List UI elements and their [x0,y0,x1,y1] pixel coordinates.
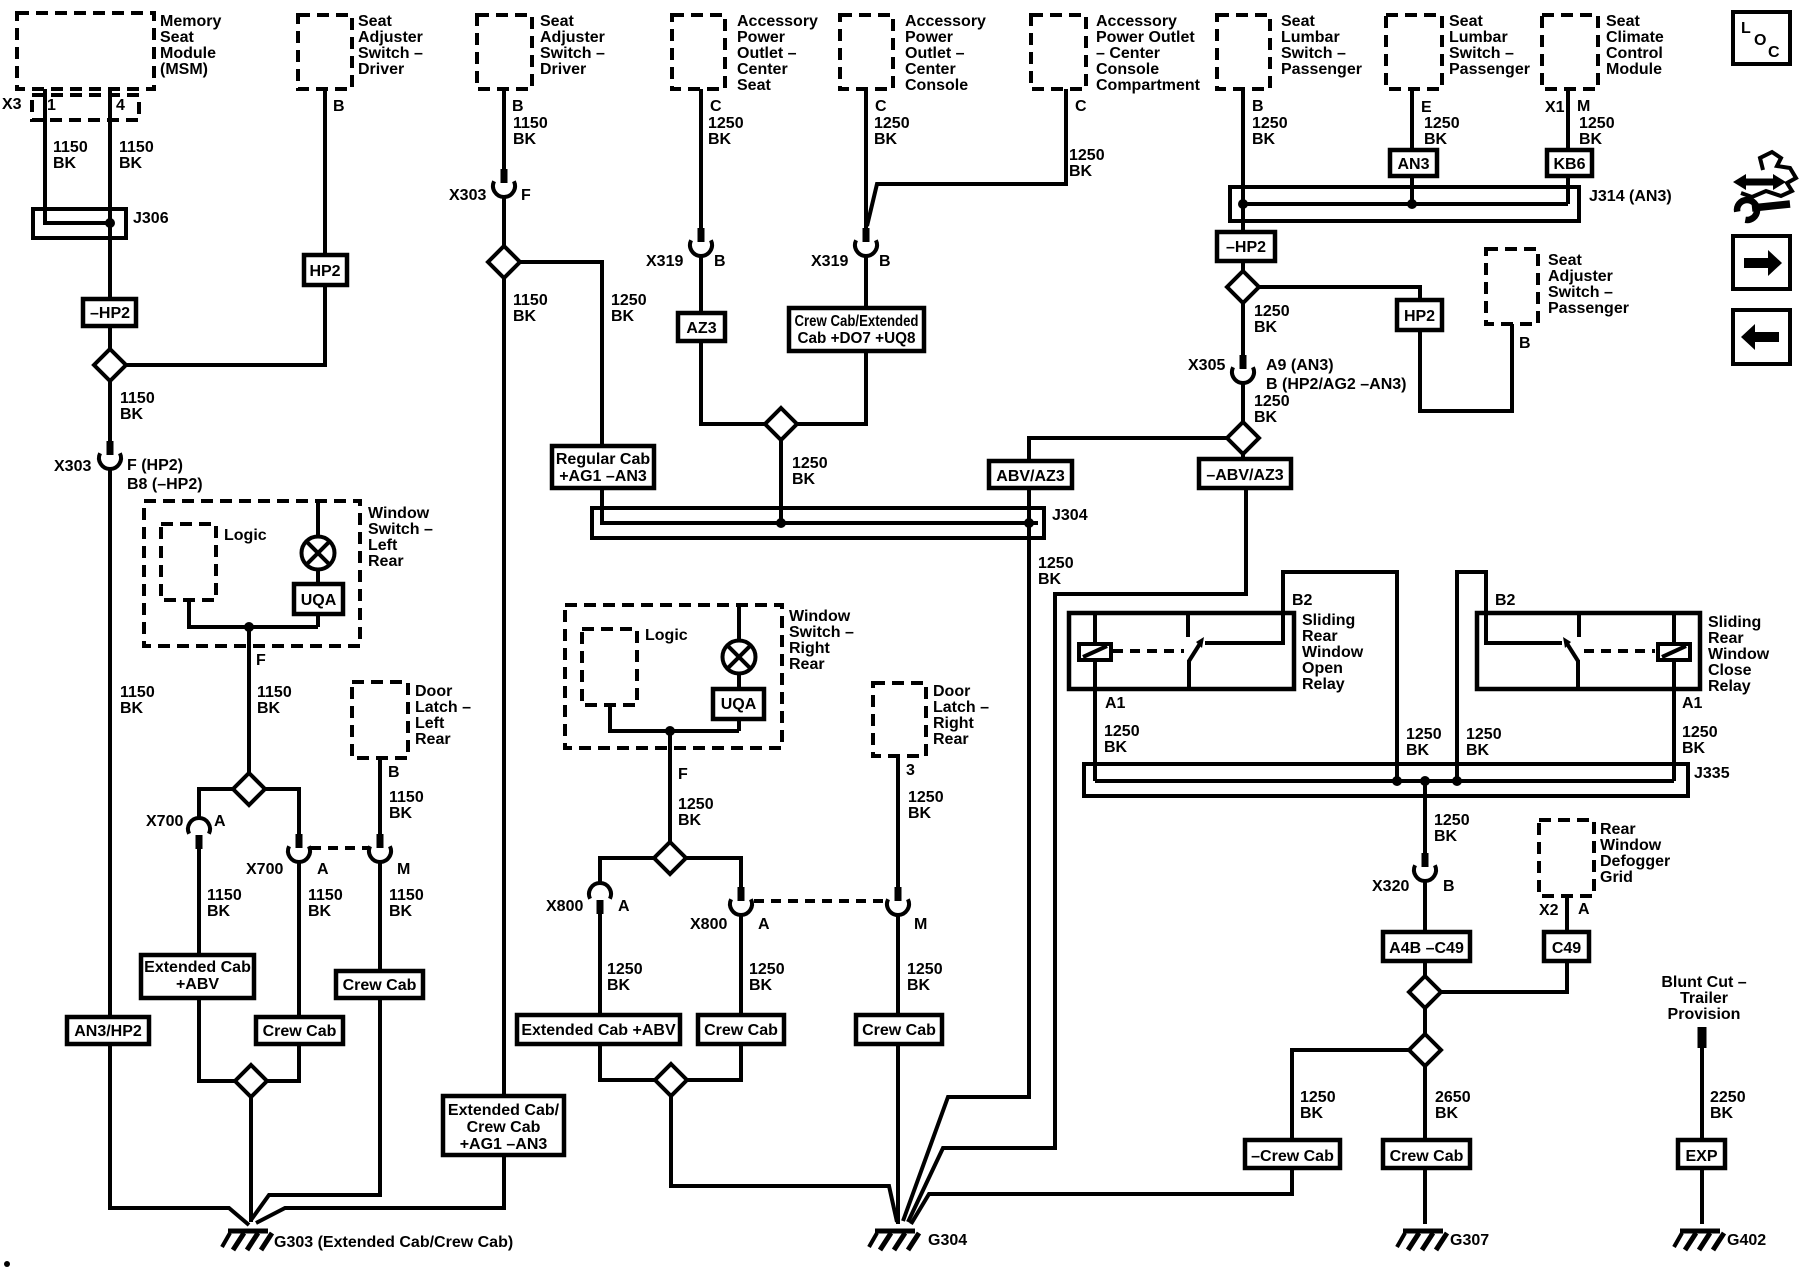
svg-text:X305: X305 [1188,357,1225,374]
svg-text:Seat: Seat [540,13,574,30]
junction block J304 [592,508,1044,538]
wire diamond down to G304 [671,1093,897,1222]
svg-text:Climate: Climate [1606,29,1664,46]
wire blunt cut to EXP [1700,1048,1704,1140]
svg-text:Rear: Rear [415,731,451,748]
svg-text:AN3: AN3 [1397,156,1429,173]
svg-text:Driver: Driver [540,61,586,78]
svg-text:BK: BK [1254,319,1278,336]
diamond splice ABV [1227,422,1259,454]
svg-text:+AG1 –AN3: +AG1 –AN3 [460,1136,548,1153]
svg-text:Seat: Seat [1548,252,1582,269]
open relay A1 wire to J335 [1093,689,1097,781]
svg-text:Module: Module [160,45,216,62]
svg-text:Crew Cab/Extended: Crew Cab/Extended [795,313,919,330]
svg-text:F: F [256,652,266,669]
relay sliding rear window close: outer box [1477,613,1700,689]
svg-text:1250: 1250 [1254,393,1290,410]
svg-text:C: C [875,98,887,115]
svg-text:BK: BK [1579,131,1603,148]
box left arrow [1733,310,1790,364]
node F junction right window switch [665,726,675,736]
svg-text:Module: Module [1606,61,1662,78]
wire defogger to X2 to C49 [1565,896,1569,932]
svg-text:Seat: Seat [1281,13,1315,30]
box AN3/HP2 [67,1017,149,1044]
wire X700A down through Extended Cab +ABV to diamond [199,849,238,1081]
svg-text:Console: Console [905,77,968,94]
svg-text:A: A [758,916,770,933]
svg-text:Grid: Grid [1600,869,1633,886]
dashed bridge X700 A to M [311,846,368,850]
wire AZ3 to diamond [701,341,767,424]
connector X305 pin [1240,355,1247,369]
wire UQA to bus inside switch [316,614,320,627]
svg-text:1250: 1250 [1466,726,1502,743]
box Crew Cab bottom right [1383,1140,1470,1168]
svg-text:A: A [214,813,226,830]
svg-text:M: M [1577,98,1590,115]
svg-text:Relay: Relay [1708,678,1751,695]
svg-text:BK: BK [257,700,281,717]
svg-text:Extended Cab: Extended Cab [144,959,251,976]
svg-text:Accessory: Accessory [905,13,986,30]
wire APO console compartment jog [867,89,1066,226]
svg-text:Crew Cab: Crew Cab [862,1022,936,1039]
svg-text:Adjuster: Adjuster [358,29,423,46]
blunt cut pin [1698,1027,1707,1048]
window switch left rear: wire lamp top [316,501,320,537]
diamond splice crew cab split [1409,1034,1441,1066]
wire -HP2 to diamond [108,326,112,352]
svg-text:Switch –: Switch – [358,45,423,62]
box Crew Cab center [698,1015,784,1044]
wire APO center seat pin C down [699,89,703,228]
box EXP [1678,1140,1725,1168]
svg-text:B: B [1443,878,1455,895]
wire F out of window switch to diamond [247,627,251,776]
svg-text:1250: 1250 [1069,147,1105,164]
close relay switch post [1577,613,1581,637]
svg-text:X319: X319 [646,253,683,270]
svg-text:X700: X700 [146,813,183,830]
svg-text:Adjuster: Adjuster [540,29,605,46]
node J306 junction [105,218,115,228]
svg-text:Window: Window [1302,644,1364,661]
svg-text:C: C [1768,44,1780,61]
svg-text:Outlet –: Outlet – [905,45,965,62]
svg-text:Left: Left [368,537,398,554]
svg-text:1150: 1150 [308,887,343,904]
relay sliding rear window open: outer box [1069,613,1294,689]
svg-text:Cab +DO7 +UQ8: Cab +DO7 +UQ8 [798,330,916,347]
box -HP2 [83,299,136,326]
diamond splice F right rear [654,842,686,874]
svg-text:Crew Cab: Crew Cab [263,1023,337,1040]
wire diamond left to -Crew Cab [1292,1050,1412,1140]
wire X800A down through Extended Cab +ABV to diamond [600,914,657,1080]
wire lamp to UQA right [737,674,741,690]
svg-text:(MSM): (MSM) [160,61,208,78]
close relay B2 wire [1457,572,1486,781]
svg-text:Logic: Logic [224,527,267,544]
svg-text:Window: Window [368,505,430,522]
svg-text:1250: 1250 [907,961,943,978]
svg-text:A9 (AN3): A9 (AN3) [1266,357,1334,374]
svg-text:Center: Center [737,61,788,78]
wire X320 to A4B-C49 [1423,881,1427,932]
svg-text:Provision: Provision [1668,1006,1741,1023]
diamond splice lumbar [1227,271,1259,303]
svg-text:1150: 1150 [120,684,155,701]
wire M down through Crew Cab to G304 [896,915,900,1224]
svg-text:X1: X1 [1545,99,1565,116]
svg-text:1250: 1250 [792,455,828,472]
dashed box Memory Seat Module [17,13,154,89]
svg-text:X700: X700 [246,861,283,878]
box -ABV/AZ3 [1199,459,1291,488]
svg-text:Seat: Seat [160,29,194,46]
svg-text:–HP2: –HP2 [90,305,130,322]
svg-text:X800: X800 [690,916,727,933]
svg-text:2250: 2250 [1710,1089,1746,1106]
svg-text:B: B [333,98,345,115]
svg-text:–ABV/AZ3: –ABV/AZ3 [1206,467,1283,484]
svg-text:1150: 1150 [513,115,548,132]
svg-text:+AG1 –AN3: +AG1 –AN3 [559,468,647,485]
dashed box Seat Adjuster Switch Driver 2 [477,15,532,89]
box Extended Cab +ABV left [141,955,254,998]
box UQA left [294,584,343,614]
svg-text:BK: BK [120,406,144,423]
wire APO center console pin C down [864,89,868,228]
svg-text:Close: Close [1708,662,1752,679]
svg-text:G304: G304 [928,1232,967,1249]
svg-text:J306: J306 [133,210,169,227]
svg-text:Seat: Seat [737,77,771,94]
svg-text:1250: 1250 [1579,115,1615,132]
svg-text:BK: BK [1104,739,1128,756]
wire X320 drop from J335 [1423,781,1427,853]
connector X800 pin M [895,887,902,901]
wire diamond right to Regular Cab branch [517,262,602,446]
svg-text:Console: Console [1096,61,1159,78]
lamp window switch right rear [723,641,756,674]
svg-text:Blunt Cut –: Blunt Cut – [1661,974,1746,991]
connector X700 pin M [377,834,384,848]
svg-text:Rear: Rear [1600,821,1636,838]
svg-text:BK: BK [120,700,144,717]
dashed bridge X800 A to M [754,899,884,903]
svg-text:Accessory: Accessory [1096,13,1177,30]
svg-text:Crew Cab: Crew Cab [704,1022,778,1039]
svg-text:BK: BK [708,131,732,148]
icon arrows and wrench [1733,152,1796,220]
svg-text:1250: 1250 [1300,1089,1336,1106]
box C49 [1544,932,1589,961]
svg-text:Driver: Driver [358,61,404,78]
wire diamond left to ABV/AZ3 [1029,438,1230,461]
svg-text:Relay: Relay [1302,676,1345,693]
svg-text:Switch –: Switch – [789,624,854,641]
box LOC [1733,12,1790,64]
svg-text:Switch –: Switch – [1548,284,1613,301]
svg-text:Sliding: Sliding [1302,612,1355,629]
box right arrow [1733,236,1790,289]
wire UQA to bus inside switch right [737,719,741,731]
dashed connector strip X3 [32,95,139,120]
svg-text:Window: Window [789,608,851,625]
svg-text:Defogger: Defogger [1600,853,1670,870]
svg-text:1150: 1150 [120,390,155,407]
close relay switch blade [1566,642,1578,661]
box Crew Cab right of center [856,1015,942,1044]
svg-text:Crew Cab: Crew Cab [343,977,417,994]
svg-text:BK: BK [1300,1105,1324,1122]
svg-text:J335: J335 [1694,765,1730,782]
diamond splice col2 [488,246,520,278]
wire seat lumbar2 pin E down through AN3 to J314 [1410,89,1414,204]
svg-text:A: A [317,861,329,878]
svg-text:BK: BK [1466,742,1490,759]
node J335 junction B2 open [1392,776,1402,786]
svg-text:F (HP2): F (HP2) [127,457,183,474]
svg-text:J314 (AN3): J314 (AN3) [1589,188,1672,205]
open relay B2 wire [1283,572,1397,781]
svg-text:Power: Power [737,29,785,46]
svg-text:1150: 1150 [513,292,548,309]
svg-text:Right: Right [933,715,975,732]
box Extended Cab +ABV center [517,1015,680,1044]
svg-text:ABV/AZ3: ABV/AZ3 [996,468,1065,485]
svg-text:C: C [710,98,722,115]
wire A4B-C49 to diamond [1423,961,1427,979]
box UQA right [713,689,764,719]
wire diamond down to X305 [1241,300,1245,355]
wire X319 to AZ3 [699,256,703,313]
wire EXP to G402 [1700,1168,1704,1224]
dashed box APO center console compartment [1031,15,1086,89]
svg-text:1250: 1250 [708,115,744,132]
wire C49 to diamond [1438,961,1567,992]
svg-text:Switch –: Switch – [1449,45,1514,62]
svg-text:Passenger: Passenger [1548,300,1629,317]
svg-text:AZ3: AZ3 [686,320,716,337]
svg-text:B2: B2 [1495,592,1516,609]
connector X320 pin B [1422,853,1429,867]
svg-text:1250: 1250 [1038,555,1074,572]
wire diamond to X800 A left [600,858,657,885]
wire J335 internal [1095,779,1674,783]
wire door latch left rear to M connector [378,758,382,834]
wire Regular Cab to J304 [602,488,1038,523]
dashed box Logic left [161,524,216,600]
svg-text:HP2: HP2 [309,263,340,280]
box KB6 [1547,150,1592,176]
ground G402 [1674,1231,1724,1250]
junction block J335 [1084,764,1688,796]
dashed box Door Latch Right Rear [873,683,926,756]
wire diamond to J304 [779,437,783,523]
svg-text:1150: 1150 [53,139,88,156]
wire diamond to HP2 of seat adjuster driver [123,89,325,365]
svg-text:Switch –: Switch – [1281,45,1346,62]
wire seat adjuster driver2 pin B down [502,89,506,169]
diamond splice bottom center [655,1064,687,1096]
svg-text:BK: BK [513,308,537,325]
svg-text:AN3/HP2: AN3/HP2 [74,1023,142,1040]
svg-text:BK: BK [1254,409,1278,426]
dashed box Seat Adjuster Switch Passenger [1486,249,1538,324]
svg-text:BK: BK [908,805,932,822]
box A4B -C49 [1383,932,1470,961]
wire diamond down to G303 [249,1094,253,1222]
svg-text:BK: BK [513,131,537,148]
svg-text:B: B [512,98,524,115]
svg-text:BK: BK [1252,131,1276,148]
svg-text:O: O [1754,32,1766,49]
svg-text:UQA: UQA [721,696,757,713]
svg-text:2650: 2650 [1435,1089,1471,1106]
page corner dot [4,1261,10,1267]
dashed box Seat Adjuster Switch Driver 1 [298,15,352,89]
svg-text:EXP: EXP [1685,1148,1717,1165]
svg-text:E: E [1421,99,1432,116]
svg-text:Passenger: Passenger [1281,61,1362,78]
dashed box Door Latch Left Rear [352,682,408,758]
svg-text:1250: 1250 [874,115,910,132]
svg-text:B: B [1519,335,1531,352]
svg-text:Seat: Seat [358,13,392,30]
open relay contact line to B2 [1205,613,1283,643]
svg-text:1250: 1250 [607,961,643,978]
svg-text:X3: X3 [2,96,22,113]
wire Crew Cab to G307 [1423,1168,1427,1224]
svg-text:1150: 1150 [389,789,424,806]
diamond splice APO merge [765,408,797,440]
svg-text:1250: 1250 [908,789,944,806]
svg-text:A1: A1 [1105,695,1126,712]
wire X305 down to diamond [1241,383,1245,425]
open relay coil stub [1093,613,1097,644]
svg-text:Compartment: Compartment [1096,77,1201,94]
wire X800A2 down through Crew Cab to diamond [685,915,741,1080]
svg-text:1250: 1250 [1434,812,1470,829]
wire Crew Cab/Extended box to diamond [795,351,866,424]
svg-text:Crew Cab: Crew Cab [1390,1148,1464,1165]
svg-text:Window: Window [1708,646,1770,663]
wire between diamonds [1423,1005,1427,1037]
box Crew Cab (A wire) [256,1017,343,1044]
svg-text:Center: Center [905,61,956,78]
svg-text:BK: BK [1038,571,1062,588]
svg-text:G307: G307 [1450,1232,1489,1249]
svg-text:Crew Cab: Crew Cab [467,1119,541,1136]
svg-text:Latch –: Latch – [415,699,471,716]
svg-text:Extended Cab/: Extended Cab/ [448,1102,560,1119]
svg-text:1250: 1250 [1424,115,1460,132]
open relay switch post [1186,613,1190,637]
wire seat climate pin M down through KB6 to J314 [1566,89,1570,204]
svg-text:M: M [397,861,410,878]
wire diamond down to Crew Cab [1423,1063,1427,1140]
diamond splice below -HP2 [94,349,126,381]
close relay contact line to B2 [1486,613,1562,643]
wire X700A2 down through Crew Cab to diamond [264,862,299,1081]
svg-text:Door: Door [933,683,970,700]
svg-text:B2: B2 [1292,592,1313,609]
close relay dashed link [1584,649,1655,653]
svg-text:1150: 1150 [119,139,154,156]
svg-text:Seat: Seat [1606,13,1640,30]
box Regular Cab +AG1 -AN3 [552,446,654,488]
svg-text:BK: BK [1682,740,1706,757]
wire diamond right to HP2 to seat adjuster passenger [1257,287,1512,411]
svg-text:1250: 1250 [1406,726,1442,743]
svg-text:A4B –C49: A4B –C49 [1389,940,1464,957]
connector X319 pin B [698,228,705,242]
diamond splice F left rear [233,773,265,805]
connector X319 pin B second [863,228,870,242]
close relay coil stub [1672,613,1676,644]
box AZ3 [678,313,725,341]
wire diamond down to -ABV/AZ3 [1241,451,1245,459]
close relay A1 wire to J335 [1672,689,1676,781]
svg-text:Window: Window [1600,837,1662,854]
node F junction left window switch [244,622,254,632]
svg-text:A: A [618,898,630,915]
svg-text:Right: Right [789,640,831,657]
svg-text:BK: BK [678,812,702,829]
wire logic to bus inside switch [189,600,318,627]
svg-text:Regular Cab: Regular Cab [556,451,650,468]
junction block J306 [33,209,126,238]
wire logic to bus inside switch right [610,705,739,731]
svg-text:1: 1 [47,97,56,114]
svg-text:Rear: Rear [933,731,969,748]
box AN3 [1390,150,1437,176]
svg-text:1250: 1250 [678,796,714,813]
dashed box Rear Window Defogger Grid [1539,820,1594,896]
svg-text:Memory: Memory [160,13,221,30]
svg-text:C49: C49 [1552,940,1581,957]
svg-text:1250: 1250 [1252,115,1288,132]
ground G304 [869,1231,919,1250]
svg-text:BK: BK [389,903,413,920]
svg-text:1150: 1150 [389,887,424,904]
ground G307 [1397,1231,1447,1250]
open relay switch blade [1189,642,1201,661]
svg-text:BK: BK [53,155,77,172]
junction block J314 [1230,187,1579,221]
wire diamond to X700 A left [199,789,236,820]
wire X319 to Crew Cab/Extended box [864,256,868,308]
node J314 junction B [1238,199,1248,209]
wire -ABV/AZ3 down to G304 [908,488,1246,1222]
open relay coil [1079,644,1111,660]
svg-text:M: M [914,916,927,933]
dashed box Window Switch Right Rear [565,605,782,748]
svg-text:B8 (–HP2): B8 (–HP2) [127,476,203,493]
wire MSM pin1 to J306 [45,89,110,223]
svg-text:Passenger: Passenger [1449,61,1530,78]
box -Crew Cab [1245,1140,1340,1168]
svg-text:A: A [1578,901,1590,918]
svg-text:X320: X320 [1372,878,1409,895]
svg-text:+ABV: +ABV [176,976,219,993]
svg-text:Sliding: Sliding [1708,614,1761,631]
svg-text:BK: BK [1069,163,1093,180]
